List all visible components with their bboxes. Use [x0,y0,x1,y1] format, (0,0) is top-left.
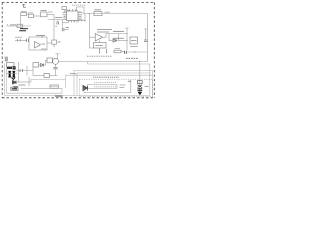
label Q2 [97,30,112,32]
label PCB text [12,88,17,90]
label U2 out [42,43,46,45]
T1 winding caps [8,71,15,77]
T1 primary bar [7,67,12,69]
wire input horizontal [8,25,32,27]
wire module rows joint [116,85,118,89]
IC U1 body [67,11,79,21]
wire stub left [31,80,66,83]
wire D3 out [16,81,31,83]
label R4 [58,41,61,43]
label row 2 [113,37,124,39]
resistor R8 [114,50,121,53]
wire D1 to node [109,40,113,42]
wire T1 right vertical [18,62,20,82]
RV1 bars [137,89,142,91]
net tick [56,53,60,55]
transistor Q2 [95,34,102,42]
wire right rect vertical [147,14,149,62]
label R3 [48,11,53,13]
wire mid vertical [32,67,34,76]
wire branch vertical [26,66,28,76]
label below X1 [130,46,138,48]
regulator VR1 [94,12,102,16]
transformer T1 box [7,63,15,67]
inductor L1 [10,25,16,27]
wire module right drop [130,80,132,93]
T1 core dot [13,66,16,69]
switch S3 contacts [106,49,108,54]
wire module row 2 [88,88,118,90]
label strip box [50,85,59,88]
wire terminal row 2 [116,40,127,42]
wire module row 1 [88,84,118,86]
component X1 box [130,37,138,44]
label R1 value [21,10,27,12]
label input [15,36,22,38]
label 4x [41,48,47,50]
label module top right [128,80,131,82]
label D3 [19,84,26,86]
U1 pins top [70,9,76,11]
wire top-left vertical [20,16,22,27]
wire C6 down [55,69,57,76]
label box PCB [11,87,18,90]
label R2 value [28,12,33,14]
wire box bottom stub [90,47,94,49]
node A junction [20,26,21,27]
T1 winding right [13,72,15,76]
relay K1 box [94,43,107,49]
switch S1 [17,24,23,27]
wire U1 top to rail [77,7,85,14]
amplifier box U2 [29,37,47,50]
wire right-branch vertical [89,14,91,49]
wire IC bottom rail [63,22,69,24]
bottom module title [93,76,119,78]
wire right inner vertical [126,28,128,50]
capacitor C7 dark [125,51,127,54]
RV1 body [137,81,142,84]
capacitor C6 [53,67,57,69]
regulator U3 box [33,63,39,68]
U1 pins bottom [69,21,78,23]
wire D2 down [28,77,30,86]
nested wire loop 3 [74,71,153,97]
input ticks [18,39,21,42]
wire module bottom [84,92,131,94]
label module row 1 [94,82,116,84]
label S1 [19,29,28,31]
U1 pin numbers [64,11,81,21]
wire bridge [39,64,41,66]
wire terminal row 1 [106,33,127,35]
wire to Q2 [90,36,96,38]
wire amp input [15,39,27,41]
wire Q2 emitter [99,40,101,42]
label above U2 [36,35,45,37]
RV1 cross marks [138,85,142,88]
label Q1 [41,10,47,12]
wire mid horizontal [48,19,67,21]
wire vertical to U2 net [53,15,55,41]
T1 winding left [9,72,11,76]
U1 pins right [78,13,83,20]
bottom module dashed box [80,79,153,96]
wire crystal to U1 [65,9,70,12]
label +5Vdc [126,57,138,59]
ground [13,87,18,90]
capacitor C8 [144,40,148,42]
wire Q2 collector [103,34,107,38]
note text [87,55,112,57]
wire C7 to right [126,51,147,53]
varistor RV1 chain [139,62,141,96]
crystal Y1 [62,7,67,10]
diode D3 [13,81,17,85]
label above U1 [72,4,86,6]
label RV1 [145,86,149,88]
diode D1 [113,39,116,42]
capacitor C5 [47,58,52,63]
transistor Q3 [53,58,59,64]
resistor R2 [28,14,33,17]
label row 1 [113,30,124,32]
label X1 [131,40,137,42]
wire U2 to R4 [47,42,52,44]
capacitor C3 [57,22,59,25]
label VR1 [95,9,102,11]
resistor R1 [21,13,27,16]
label -V [70,73,76,75]
wire L2 up [84,14,86,22]
RV1 dark tip [138,92,143,95]
wire +5V rail [59,61,148,63]
transistor Q1 [41,12,48,17]
label C4 [66,27,70,29]
lead below T1 [12,78,16,80]
label right of VR1 [105,11,111,13]
resistor R4 [52,40,57,44]
stub below R4 [53,44,55,47]
label net [55,17,62,19]
wire R7 row [33,75,44,77]
wire R8 to C7 [121,51,125,53]
switch S2 contacts [99,48,101,54]
diode bridge marks [41,64,44,67]
wire top rail [83,13,148,15]
title mark top-left [22,4,26,8]
power section: connector J1 [5,57,8,61]
label strip text [51,86,58,88]
wire C4 tail [64,29,69,31]
label module row 2 [94,86,116,88]
resistor R7 [44,74,50,78]
nested wire loop 4 [77,72,151,74]
wire through T1 [6,73,17,75]
node on U2 top [41,36,42,37]
wire above module [66,74,153,76]
wire Q3 down [55,64,57,67]
wire diode branch [118,34,120,41]
label footer [55,95,63,97]
border frame (page dashed border) [2,2,155,97]
capacitor C4 [62,28,64,31]
wire Q3 up [57,54,59,59]
nested wire loop 1 (outer) [5,62,153,97]
net stub right [145,29,147,40]
label module pins [120,85,126,88]
wire Q1 to R3 [27,13,29,15]
U1 pins left [63,13,67,20]
wire C4 vertical [61,20,63,28]
diode D2 [20,69,23,72]
label K1 [96,45,104,47]
capacitor C2 [27,39,29,42]
label R8 [115,48,121,50]
op-amp U2 triangle [35,42,41,49]
inductor L2 [79,20,85,22]
photocell PC1 [83,86,88,91]
nested wire loop 2 [7,67,63,94]
label net 2 [55,25,57,27]
wire T1 to D2 [16,70,33,72]
